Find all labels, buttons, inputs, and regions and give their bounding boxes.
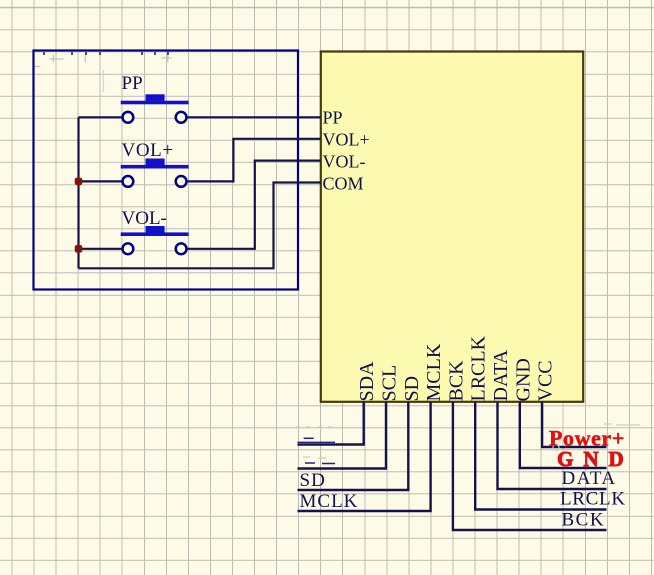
wire SD down-left <box>298 402 409 490</box>
svg-text:PP: PP <box>122 73 143 94</box>
wire SDA down-left <box>298 402 364 445</box>
erased label remnant above SCL wire <box>305 462 335 465</box>
sheet-symbol box (blue) <box>34 51 299 290</box>
wire: VOL+ right to pin VOL+ <box>187 139 321 182</box>
svg-text:PP: PP <box>323 108 343 128</box>
svg-text:MCLK: MCLK <box>300 491 359 512</box>
svg-text:LRCLK: LRCLK <box>560 489 626 510</box>
svg-text:VOL-: VOL- <box>323 152 366 172</box>
faint erased title marks top of sheet box <box>34 52 172 92</box>
wire: VOL- left <box>79 248 123 250</box>
faint gray remnants above wires <box>296 424 640 458</box>
erased label remnant above SDA wire <box>298 438 336 442</box>
svg-text:DATA: DATA <box>490 349 512 401</box>
switch S1 (PP) <box>121 94 189 122</box>
svg-text:VOL-: VOL- <box>122 208 167 229</box>
wire: PP left <box>79 116 123 118</box>
svg-text:SDA: SDA <box>356 361 378 402</box>
wire GND down-right <box>520 402 607 468</box>
erased tick remnants under top border <box>44 52 168 55</box>
wire: common vertical bus <box>77 117 79 268</box>
svg-text:VCC: VCC <box>535 360 557 401</box>
svg-text:MCLK: MCLK <box>423 343 445 401</box>
svg-text:SD: SD <box>401 376 423 402</box>
svg-text:BCK: BCK <box>562 510 606 531</box>
wire: VOL+ left <box>79 180 123 182</box>
wire: VOL- right to pin VOL- <box>187 161 321 249</box>
svg-text:VOL+: VOL+ <box>323 130 370 150</box>
svg-text:GND: GND <box>512 358 534 401</box>
svg-text:SD: SD <box>300 470 326 491</box>
wire SCL down-left <box>298 402 387 469</box>
wire BCK down-right <box>453 402 607 530</box>
switch S3 (VOL-) <box>121 226 189 254</box>
wire: PP right to pin PP <box>187 116 321 118</box>
svg-text:COM: COM <box>323 173 364 193</box>
svg-text:DATA: DATA <box>562 468 617 489</box>
svg-text:SCL: SCL <box>379 365 401 402</box>
component U1 body (yellow part) <box>321 52 583 402</box>
faint erased glyph under Power+ <box>553 445 559 451</box>
svg-text:VOL+: VOL+ <box>122 140 174 161</box>
wire DATA down-right <box>498 402 607 489</box>
svg-text:LRCLK: LRCLK <box>468 335 490 401</box>
wire MCLK down-left <box>298 402 431 511</box>
junction dot at VOL- row <box>75 245 83 253</box>
wire: COM route <box>79 183 321 269</box>
switch S2 (VOL+) <box>121 159 189 187</box>
wire VCC down-right <box>542 402 606 447</box>
junction dot at VOL+ row <box>75 178 83 186</box>
svg-text:BCK: BCK <box>445 360 467 402</box>
wire LRCLK down-right <box>475 402 606 510</box>
